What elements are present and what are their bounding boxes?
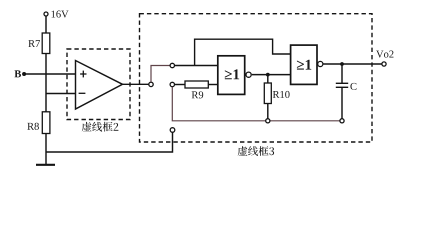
wire R10 to bottom rail — [267, 104, 269, 119]
wire top input to gate1 — [175, 65, 218, 67]
wire ground return to box3 terminal — [46, 132, 173, 152]
wire jog output to top terminal (maroon) — [151, 66, 170, 83]
wire gate1 output to gate2 input — [252, 74, 291, 76]
terminal box3 input top — [170, 63, 174, 67]
ground — [36, 164, 55, 166]
resistor R7 — [28, 33, 49, 54]
wire bottom rail (maroon) — [172, 87, 340, 121]
junction cap tap — [340, 62, 344, 66]
resistor R10 — [264, 83, 289, 104]
wire gate2 output to Vo2 — [323, 63, 382, 65]
terminal box3 input mid — [170, 82, 174, 86]
wire R8 to ground — [45, 134, 47, 165]
wire feedback rail to gate2 top input — [195, 39, 291, 65]
resistor R9 — [185, 81, 208, 98]
wire op-amp output — [123, 83, 149, 85]
node B — [14, 70, 26, 77]
wire R7 to R8 — [45, 54, 47, 112]
gate U2 NOR ≥1 — [218, 56, 251, 95]
wire to op-amp - input — [46, 93, 76, 95]
wire junction to R10 — [267, 75, 269, 83]
terminal box2 output — [149, 82, 153, 86]
wire terminal to R9 — [175, 84, 186, 86]
terminal box3 ground — [170, 128, 175, 133]
terminal Vo2 — [376, 51, 393, 67]
wire B to op-amp + input — [24, 73, 75, 75]
wire capacitor to bottom rail — [341, 87, 343, 118]
wire 16V to R7 — [45, 16, 47, 33]
terminal cap bottom — [340, 119, 344, 123]
dashed box 虚线框2 — [67, 49, 130, 132]
junction gate1 out / R10 — [266, 73, 270, 77]
gate U3 NOR ≥1 — [291, 45, 323, 84]
wire R9 to gate1 — [208, 84, 218, 86]
op-amp U1 — [76, 61, 123, 110]
capacitor C — [336, 83, 357, 90]
dashed box 虚线框3 — [140, 14, 373, 156]
terminal 16V — [44, 11, 69, 18]
terminal R10 bottom — [266, 119, 270, 123]
resistor R8 — [27, 112, 50, 134]
wire junction to capacitor — [341, 64, 343, 83]
